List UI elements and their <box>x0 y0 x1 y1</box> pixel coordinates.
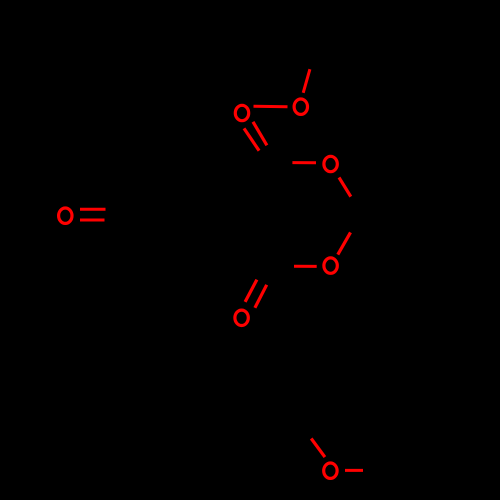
bond O6=C double bond left line <box>245 280 257 302</box>
bond C-O5 horizontal <box>294 265 317 268</box>
bond O2-O3 horizontal <box>254 105 288 109</box>
oxygen O6 (bottom left carbonyl O) <box>235 310 248 325</box>
oxygen O5 (ring O lower right) <box>324 258 337 273</box>
bond O3-CH3 diagonal up-right <box>303 69 310 93</box>
bond O1=C double bond lower line <box>80 219 105 222</box>
oxygen O4 (ring O upper right) <box>324 156 337 171</box>
bond C-O7 diagonal from up-left <box>311 439 325 458</box>
bond O2=C double bond left line <box>244 128 259 150</box>
oxygen O1 (ketone O, left) <box>59 208 72 223</box>
bond O5-C diagonal up-right <box>338 232 351 254</box>
bond O1=C double bond upper line <box>80 208 106 211</box>
oxygen O3 (top right, methoxy) <box>294 99 307 114</box>
oxygen O2 (top left) <box>235 105 248 120</box>
bond O2=C double bond right line <box>253 122 267 146</box>
bond O4-C diagonal down-right <box>339 178 351 197</box>
bond O6=C double bond right line <box>255 285 267 308</box>
oxygen O7 (bottom methoxy O) <box>324 463 337 478</box>
bond C-O4 horizontal <box>292 161 316 164</box>
bond O7-CH3 horizontal right <box>345 469 363 472</box>
